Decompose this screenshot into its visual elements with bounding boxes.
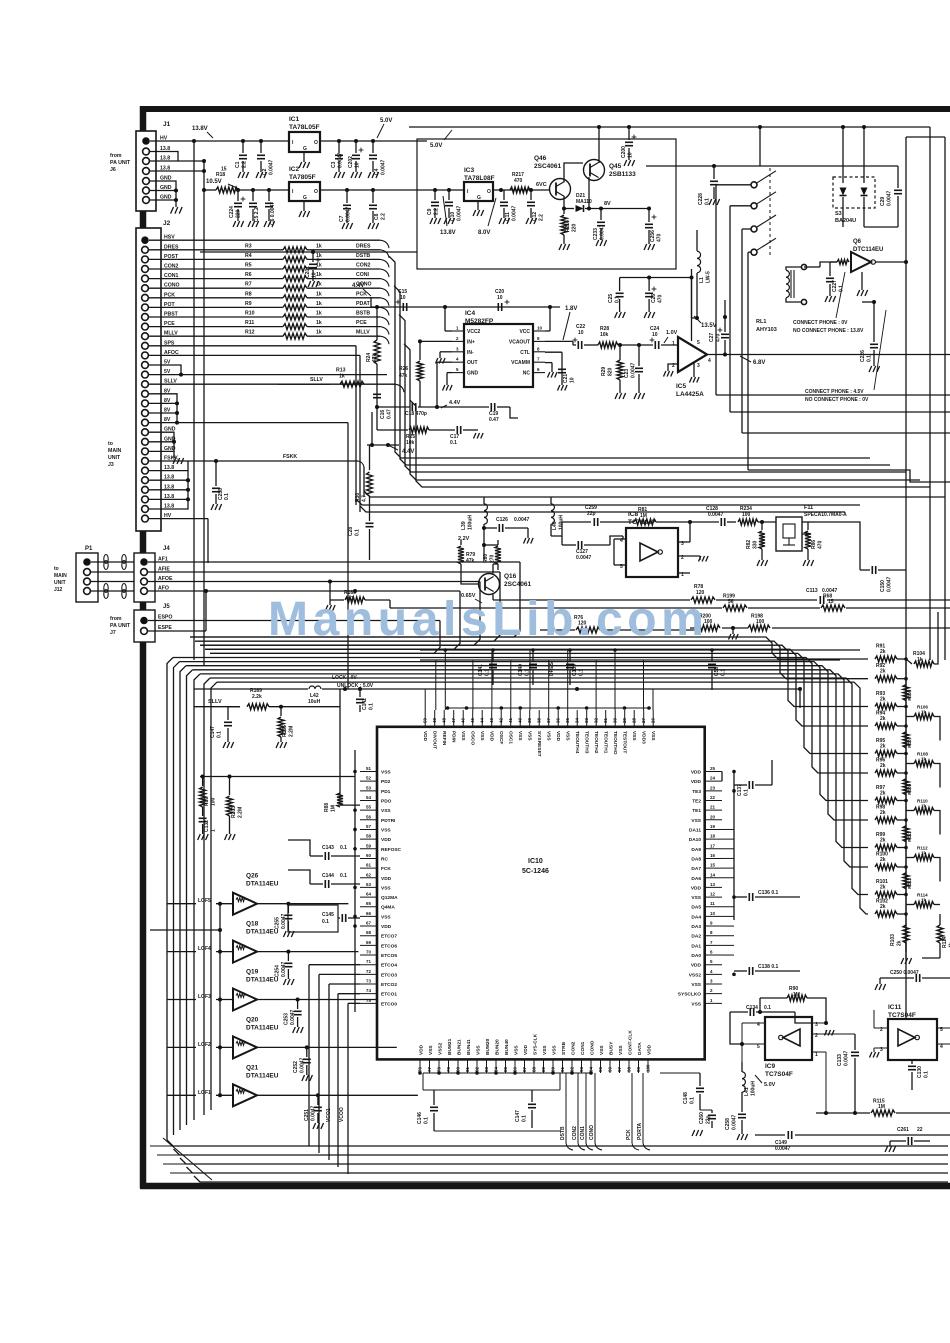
connector J2 pin SLLV [142, 381, 149, 388]
svg-text:C224: C224 [229, 206, 235, 218]
svg-text:22p: 22p [587, 511, 596, 517]
svg-text:4: 4 [708, 358, 711, 364]
svg-text:45: 45 [470, 717, 475, 723]
svg-text:IC4: IC4 [465, 310, 476, 317]
svg-text:C134: C134 [746, 1005, 758, 1011]
inductor L42 10uH [194, 688, 308, 690]
svg-text:IC2: IC2 [289, 166, 300, 173]
svg-text:VSS: VSS [514, 1045, 520, 1055]
svg-text:0.47: 0.47 [387, 409, 393, 419]
svg-text:100uH: 100uH [468, 515, 474, 530]
svg-text:15: 15 [710, 863, 716, 868]
svg-text:0.1: 0.1 [615, 296, 621, 303]
svg-text:J4: J4 [163, 546, 170, 552]
svg-text:TA7805F: TA7805F [289, 174, 316, 181]
IC10 left pin 60 RC [360, 857, 377, 859]
svg-text:TC7S04F: TC7S04F [765, 1071, 793, 1078]
svg-text:77: 77 [427, 1066, 432, 1072]
wire bottom bus 2 [157, 1154, 948, 1156]
svg-text:ETCO4: ETCO4 [381, 963, 397, 969]
connector J2 pin FSKK [142, 458, 149, 465]
capacitor C147a 0.1 [227, 707, 229, 720]
svg-text:10: 10 [537, 326, 543, 331]
IC10 left pin 72 ETCO3 [360, 973, 377, 975]
svg-text:85: 85 [503, 1066, 508, 1072]
svg-text:78: 78 [437, 1066, 442, 1072]
svg-text:1k: 1k [316, 291, 322, 297]
wire LOF3 input [167, 999, 196, 1001]
wire IC4 VCAMM gnd [545, 362, 552, 364]
IC10 left pin 52 PD2 [360, 780, 377, 782]
IC10 top pin 34 [576, 710, 578, 727]
svg-text:R4: R4 [245, 253, 252, 259]
svg-text:DSTB: DSTB [560, 1126, 566, 1140]
svg-text:C26: C26 [651, 294, 657, 303]
connector J1 pin 13.8 [143, 168, 150, 175]
svg-text:44: 44 [480, 717, 485, 723]
svg-text:6.8V: 6.8V [753, 360, 765, 366]
svg-text:1k: 1k [921, 710, 927, 715]
svg-text:DA2: DA2 [691, 934, 701, 940]
wire J1 13.8 pins join [150, 152, 178, 162]
svg-text:28: 28 [632, 717, 637, 723]
svg-text:ESPO: ESPO [158, 615, 172, 621]
wire IC5 pin5 13.5V feed [691, 278, 693, 342]
svg-text:92: 92 [570, 1066, 575, 1072]
svg-text:0.1: 0.1 [369, 703, 375, 710]
svg-text:51: 51 [366, 766, 372, 771]
svg-text:C227: C227 [832, 280, 838, 292]
svg-text:1k: 1k [921, 851, 927, 856]
capacitor C143 0.1 [310, 855, 323, 857]
svg-text:C3: C3 [331, 161, 337, 168]
capacitor C28 0.1 vertical [366, 522, 374, 524]
wire 8V rail to C256 [629, 208, 649, 210]
svg-text:2SC4061: 2SC4061 [504, 581, 531, 588]
svg-text:0.1: 0.1 [340, 845, 347, 851]
svg-text:0.1: 0.1 [450, 440, 457, 446]
svg-text:J12: J12 [54, 587, 63, 593]
svg-text:87: 87 [522, 1066, 527, 1072]
svg-text:SYSRESET: SYSRESET [536, 731, 542, 757]
capacitor C3 0.0047 [338, 141, 340, 153]
svg-text:100: 100 [646, 1064, 651, 1072]
wire AFOC row [149, 354, 360, 356]
svg-text:0.0047: 0.0047 [338, 152, 344, 168]
svg-text:ETCO1: ETCO1 [381, 992, 397, 998]
svg-text:PCK: PCK [626, 1129, 632, 1140]
wire LOF output run [288, 903, 348, 905]
svg-text:470: 470 [514, 178, 523, 184]
svg-text:C138 0.1: C138 0.1 [758, 964, 779, 970]
IC10 bottom pin 93 [581, 1059, 583, 1073]
resistor R113 1k vertical [903, 873, 909, 889]
svg-text:2k: 2k [880, 669, 886, 675]
svg-text:R11: R11 [245, 320, 254, 326]
svg-text:76: 76 [418, 1066, 423, 1072]
IC10 right pin 24 VDD [705, 780, 722, 782]
svg-text:PA UNIT: PA UNIT [110, 623, 131, 629]
IC10 right pin 8 DA2 [705, 935, 722, 937]
IC10 right pin 1 VSS [705, 1002, 722, 1004]
resistor R89 100 vertical [202, 777, 204, 787]
svg-text:VSS: VSS [381, 914, 391, 920]
sub-circuit box outline [417, 139, 676, 269]
svg-text:CONT-CLK: CONT-CLK [628, 1030, 634, 1055]
wire LOF output run [307, 1046, 397, 1048]
connector J2 pin HSV [141, 236, 149, 244]
svg-text:67: 67 [366, 921, 372, 926]
svg-text:0.0047: 0.0047 [290, 1009, 296, 1025]
connector P1 box [76, 553, 98, 602]
wire right pins to ladder wires [722, 828, 734, 830]
IC10 bottom pin 96 [609, 1059, 611, 1073]
svg-text:C1: C1 [235, 161, 241, 168]
inductor L40 100uH [550, 497, 552, 504]
svg-text:C253: C253 [284, 1013, 290, 1025]
svg-text:IN-: IN- [467, 350, 474, 356]
IC10 top pin 50 [424, 710, 426, 727]
svg-text:C233: C233 [593, 228, 599, 240]
svg-text:2.2: 2.2 [539, 214, 545, 221]
ground near R163 [329, 600, 331, 605]
capacitor C142 0.1 [359, 689, 361, 697]
svg-text:C200: C200 [621, 146, 627, 158]
svg-text:Q6: Q6 [853, 239, 862, 245]
svg-text:PDIN: PDIN [451, 731, 457, 743]
svg-text:C23: C23 [624, 369, 630, 378]
IC10 top pin 30 [614, 710, 616, 727]
svg-text:CONI: CONI [356, 272, 370, 278]
svg-text:VSS: VSS [546, 731, 552, 741]
svg-text:VDD: VDD [691, 963, 702, 969]
connector J2 pin 13.8 [142, 496, 149, 503]
wire AFO to ESPE vertical [205, 591, 207, 631]
svg-text:1k: 1k [921, 898, 927, 903]
resistor R88 1M vertical [340, 804, 360, 806]
wire fan horizontal to ladder [210, 678, 868, 895]
svg-text:FSKK: FSKK [283, 454, 297, 460]
svg-text:0.0047: 0.0047 [708, 512, 724, 518]
IC10 left pin 65 Q4MA [360, 906, 377, 908]
svg-text:VSS: VSS [552, 1045, 558, 1055]
svg-text:C58: C58 [714, 667, 720, 676]
svg-text:C201: C201 [305, 266, 311, 278]
resistor R114 1k horizontal [914, 902, 934, 908]
connector J2 pin CON1 [142, 275, 149, 282]
svg-text:42: 42 [499, 717, 504, 723]
svg-text:C141: C141 [478, 664, 484, 676]
svg-text:IC5: IC5 [676, 383, 687, 390]
wire IC1 output rail 5V [337, 139, 341, 143]
wire Q45 emitter to 5V rail [598, 127, 600, 163]
IC10 top pin 36 [557, 710, 559, 727]
IC10 left pin 67 VDD [360, 925, 377, 927]
svg-text:C29: C29 [880, 197, 886, 206]
connector J4 box [134, 553, 155, 602]
wire mid rail y505 from SPS [356, 499, 860, 505]
svg-text:47k: 47k [372, 353, 378, 362]
svg-text:81: 81 [465, 1066, 470, 1072]
wire IC4 GND pin [447, 372, 452, 374]
svg-text:C27: C27 [709, 333, 715, 342]
IC10 left pin 59 REFOSC [360, 848, 377, 850]
svg-text:21: 21 [710, 805, 716, 810]
svg-text:C137: C137 [737, 784, 743, 796]
svg-text:VDD: VDD [489, 731, 495, 742]
capacitor C252 0.0047 [306, 1047, 308, 1057]
IC10 top pin 40 [519, 710, 521, 727]
svg-text:DA9: DA9 [691, 847, 701, 853]
svg-text:IC10: IC10 [528, 858, 543, 865]
IC4 pin 8 CTL [533, 351, 545, 353]
resistor R86 470 vertical [802, 533, 808, 535]
IC10 bottom pin 99 [638, 1059, 640, 1073]
wire AF1 row [148, 561, 520, 563]
svg-text:PDO: PDO [381, 798, 392, 804]
svg-text:29: 29 [622, 717, 627, 723]
svg-text:R113: R113 [907, 878, 912, 889]
svg-text:2k: 2k [880, 649, 886, 655]
svg-text:DTA114EU: DTA114EU [246, 1072, 279, 1079]
wire relay top horizontal [646, 165, 804, 167]
svg-text:SLLV: SLLV [208, 699, 222, 705]
svg-text:MA110: MA110 [576, 199, 592, 205]
IC4 pin 6 NC [533, 372, 545, 374]
capacitor C200 10 electrolytic [627, 125, 631, 129]
IC10 left pin 69 ETCO6 [360, 944, 377, 946]
svg-text:C144: C144 [322, 873, 334, 879]
capacitor C1 2.2 [241, 139, 245, 143]
svg-text:C130: C130 [917, 1066, 923, 1078]
IC10 right pin 16 DA8 [705, 857, 722, 859]
wire F11 out right [815, 522, 860, 540]
svg-text:DA3: DA3 [691, 924, 701, 930]
wire 13.5V horizontal [620, 277, 692, 279]
svg-text:84: 84 [494, 1066, 499, 1072]
IC10 bottom pin 90 [552, 1059, 554, 1073]
capacitor C146 0.1 [433, 1090, 435, 1105]
wire L42 line to IC10 area [577, 688, 800, 690]
svg-text:0.1: 0.1 [485, 669, 491, 676]
wire 4.4V rail to IC4 [370, 297, 372, 307]
svg-text:0.0047: 0.0047 [310, 1105, 316, 1121]
capacitor C140 0.1 [532, 650, 534, 662]
wire IC8 input left [622, 536, 624, 539]
IC10 bottom pin 95 [600, 1059, 602, 1073]
connector J1 pin GND [143, 178, 150, 185]
wire Q20 output [257, 1046, 307, 1048]
capacitor C21 10 [558, 368, 566, 370]
IC10 bottom pin 81 [467, 1059, 469, 1073]
svg-text:0.1: 0.1 [224, 493, 230, 500]
IC10 bottom pin 78 [438, 1059, 440, 1073]
svg-text:5: 5 [697, 340, 700, 346]
capacitor C127 0.0047 [562, 544, 576, 546]
resistor R10 1k row [149, 316, 283, 318]
svg-text:11: 11 [710, 901, 715, 906]
resistor R29 820 vertical [619, 345, 621, 360]
IC10 right pin 20 VSS [705, 819, 722, 821]
IC10 left pin 74 ETCO1 [360, 993, 377, 995]
svg-text:46: 46 [461, 717, 466, 723]
wire fan horizontal to ladder [195, 641, 868, 679]
ground IC11 pin3 [873, 1048, 875, 1052]
wire signal line IC8 input [551, 522, 591, 536]
svg-text:IC8: IC8 [628, 511, 639, 518]
IC10 right pin 11 DA5 [705, 906, 722, 908]
svg-text:2.2: 2.2 [434, 208, 440, 215]
svg-text:23: 23 [710, 785, 716, 790]
resistor R103 2k vertical [903, 925, 909, 943]
svg-text:33: 33 [584, 717, 589, 723]
svg-text:91: 91 [560, 1066, 565, 1072]
inductor L39 100uH [483, 497, 485, 504]
connector J2 pin POT [142, 304, 149, 311]
svg-text:34: 34 [575, 717, 580, 723]
svg-text:from: from [110, 153, 122, 159]
IC4 pin 9 VCAOUT [533, 340, 545, 342]
svg-text:C254: C254 [274, 965, 280, 977]
wire IC11 pins [874, 1027, 888, 1029]
svg-text:DA4: DA4 [691, 914, 701, 920]
svg-text:LOF5: LOF5 [198, 898, 211, 904]
svg-text:BUN41: BUN41 [466, 1039, 472, 1055]
svg-text:R3: R3 [245, 243, 252, 249]
connector J2 pin PCE [142, 323, 149, 330]
svg-text:BSTB: BSTB [356, 311, 370, 317]
IC10 right pin 18 DA10 [705, 838, 722, 840]
svg-text:VSS: VSS [542, 1045, 548, 1055]
connector J1 box [136, 131, 156, 211]
svg-text:DTA114EU: DTA114EU [246, 929, 279, 936]
svg-text:DA1: DA1 [691, 943, 701, 949]
IC10 left pin 63 VSS [360, 886, 377, 888]
svg-text:8V: 8V [604, 201, 611, 207]
svg-text:TE2: TE2 [692, 798, 701, 804]
svg-text:VSS: VSS [650, 731, 656, 741]
svg-text:BUM20: BUM20 [485, 1038, 491, 1055]
wire IC10 top pin bus [447, 707, 649, 709]
svg-text:10.5V: 10.5V [206, 179, 222, 185]
resistor R203 2.2M vertical [229, 777, 231, 796]
svg-text:14: 14 [710, 872, 716, 877]
capacitor C139 0.1 [569, 650, 571, 662]
svg-text:1k: 1k [316, 243, 322, 249]
svg-text:O: O [314, 189, 318, 195]
svg-text:94: 94 [589, 1066, 594, 1072]
wire fan left vertical [167, 658, 173, 1141]
svg-text:2.2: 2.2 [381, 213, 387, 220]
IC10 right pin 7 DA1 [705, 944, 722, 946]
IC10 bottom pin 79 [448, 1059, 450, 1073]
IC10 top pin 26 [652, 710, 654, 727]
svg-text:LA4425A: LA4425A [676, 391, 704, 398]
svg-text:PCE: PCE [356, 320, 367, 326]
svg-text:10: 10 [710, 911, 716, 916]
wire LOF2 input [167, 1046, 196, 1048]
svg-text:BUN21: BUN21 [457, 1039, 463, 1055]
svg-text:2.2M: 2.2M [238, 807, 244, 818]
capacitor C141 0.1 [492, 650, 494, 662]
svg-text:0.1: 0.1 [924, 1071, 930, 1078]
wire LOF output run [318, 1094, 418, 1096]
svg-text:220: 220 [236, 209, 242, 218]
wire ladder node rail [905, 659, 907, 952]
svg-text:88: 88 [532, 1066, 537, 1072]
IC10 top pin 33 [586, 710, 588, 727]
svg-text:1k: 1k [316, 330, 322, 336]
svg-text:RL1: RL1 [756, 319, 766, 325]
connector J2 pin 13.8 [142, 486, 149, 493]
wire right verticals x906 [905, 137, 907, 1035]
connector J4 pin AFIE [141, 569, 148, 576]
svg-text:470: 470 [818, 540, 824, 549]
wire IC4 VCAOUT line [545, 340, 573, 342]
svg-text:49: 49 [432, 717, 437, 723]
svg-text:95: 95 [598, 1066, 603, 1072]
wire signal CON1 [585, 1073, 587, 1143]
resistor R4 1k row [149, 258, 283, 260]
wire 5V pins join [149, 365, 181, 375]
IC10 left pin 68 ETCO7 [360, 935, 377, 937]
IC10 bottom pin 76 [419, 1059, 421, 1073]
IC10 left pin 66 VSS [360, 915, 377, 917]
svg-text:C147: C147 [210, 726, 216, 738]
svg-text:10: 10 [497, 295, 503, 301]
capacitor C7 0.0047 [345, 188, 349, 192]
capacitor C233 0.0047 [600, 209, 602, 221]
svg-text:UNLOCK : 5.0V: UNLOCK : 5.0V [337, 683, 374, 689]
wire LOF output run [298, 999, 378, 1001]
svg-text:OUT: OUT [467, 360, 478, 366]
svg-text:VCAOUT: VCAOUT [509, 339, 530, 345]
svg-text:TC7S04F: TC7S04F [628, 519, 656, 526]
svg-text:PA UNIT: PA UNIT [110, 160, 131, 166]
svg-text:2k: 2k [880, 716, 886, 722]
ferrite beads between P1 and J4 [91, 561, 134, 563]
svg-text:10: 10 [400, 295, 406, 301]
svg-text:VDD: VDD [555, 731, 561, 742]
svg-text:VDD3: VDD3 [641, 731, 647, 744]
IC10 top pin 43 [491, 710, 493, 727]
ground Q6 [861, 272, 863, 290]
svg-text:CONO: CONO [590, 1040, 596, 1055]
connector J2 pin 8V [142, 410, 149, 417]
capacitor C201 10 electrolytic [311, 250, 315, 254]
svg-text:65: 65 [366, 901, 372, 906]
svg-text:5.0V: 5.0V [380, 118, 392, 124]
svg-text:0.0047: 0.0047 [631, 362, 637, 378]
IC10 right pin 13 VDD [705, 886, 722, 888]
svg-text:89: 89 [541, 1066, 546, 1072]
svg-text:13: 13 [710, 882, 716, 887]
svg-text:1k: 1k [316, 320, 322, 326]
svg-text:58: 58 [366, 834, 372, 839]
wire IC10 bottom bus y1090 [423, 1089, 560, 1091]
svg-text:32: 32 [594, 717, 599, 723]
svg-text:1k: 1k [316, 253, 322, 259]
wire left pins horizontal feeds [200, 776, 355, 778]
resistor R9 1k row [149, 306, 283, 308]
wire IC4 VCC2 up to rail [445, 330, 452, 332]
IC10 top pin 41 [510, 710, 512, 727]
svg-text:R107: R107 [907, 736, 912, 747]
svg-text:MLLV: MLLV [356, 330, 370, 336]
wire signal PCK [631, 1073, 633, 1143]
svg-text:VSS: VSS [691, 818, 701, 824]
wire mid rail y512 from AFOC [360, 506, 845, 512]
